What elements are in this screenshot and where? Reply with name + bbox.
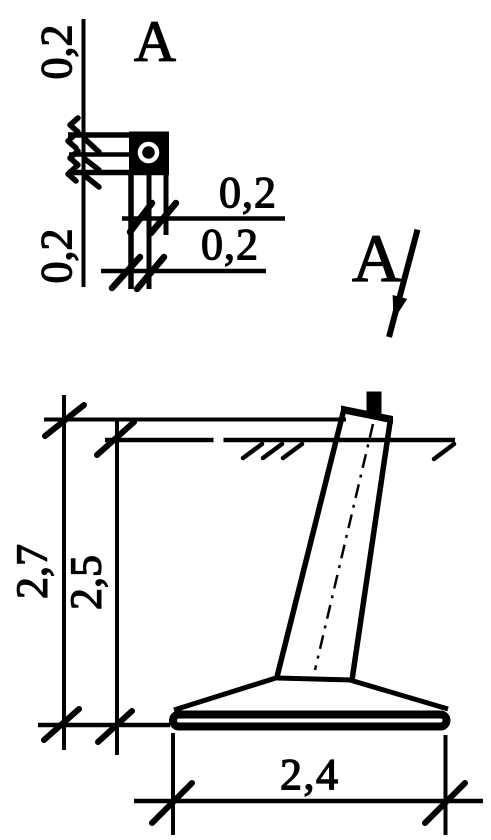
svg-text:0,2: 0,2 xyxy=(201,220,258,269)
svg-text:2,4: 2,4 xyxy=(280,750,338,799)
svg-text:A: A xyxy=(352,220,401,296)
svg-text:2,5: 2,5 xyxy=(62,555,111,610)
svg-text:A: A xyxy=(134,9,176,74)
svg-text:0,2: 0,2 xyxy=(32,229,81,284)
svg-text:0,2: 0,2 xyxy=(219,168,276,217)
svg-text:2,7: 2,7 xyxy=(8,544,57,599)
svg-text:0,2: 0,2 xyxy=(32,25,81,80)
